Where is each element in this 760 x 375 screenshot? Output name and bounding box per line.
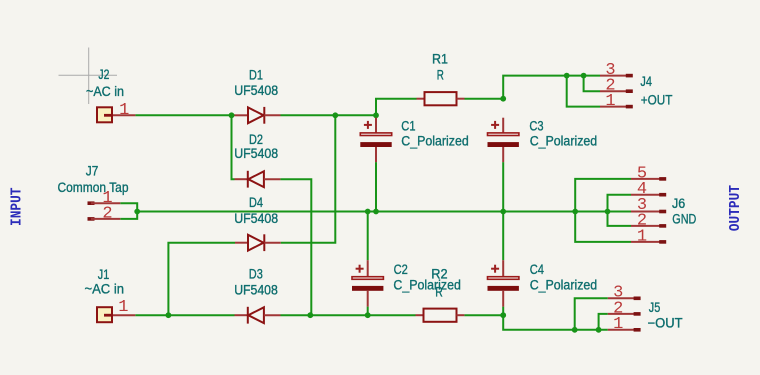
svg-text:D1: D1 [249,68,263,83]
svg-text:INPUT: INPUT [9,188,26,227]
capacitor C1 [360,118,469,162]
wire D4 left down [168,243,235,316]
connector J5 [608,284,683,335]
svg-text:UF5408: UF5408 [234,83,278,98]
junction J7 exit [134,209,140,215]
wire drop to D2 [232,115,235,179]
wire C2 top [367,212,369,261]
svg-text:2: 2 [102,205,112,224]
svg-text:UF5408: UF5408 [234,211,278,226]
svg-text:1: 1 [637,227,647,246]
wire D2 right down [280,179,311,315]
resistor R1 [417,51,465,105]
junction top at C1 [373,112,379,118]
svg-text:J2: J2 [98,67,109,82]
wire D4 right up [281,115,336,242]
svg-text:1: 1 [613,315,623,334]
svg-text:+OUT: +OUT [641,92,673,107]
connector J2 [86,67,135,122]
junction bottom at C2 [365,312,371,318]
junction bottom at C4 [500,312,506,318]
svg-text:UF5408: UF5408 [234,146,278,161]
svg-text:R1: R1 [432,51,448,66]
junction rail at C1 [373,209,379,215]
svg-text:C4: C4 [530,262,545,277]
junction top at D2 drop [229,112,235,118]
connector J7 [58,163,129,223]
svg-text:C3: C3 [529,118,543,133]
connector J6 [631,164,697,246]
svg-text:C2: C2 [394,262,408,277]
capacitor C4 [488,260,598,306]
svg-text:R: R [437,68,444,83]
svg-text:−OUT: −OUT [648,316,683,331]
svg-text:D4: D4 [249,195,263,210]
junction rail J6 outer [572,209,578,215]
svg-text:C_Polarized: C_Polarized [393,277,461,292]
junction top at D4 riser [332,112,338,118]
wire J7 bracket [120,203,137,219]
wire J2 to D1 [135,114,234,116]
svg-text:C_Polarized: C_Polarized [530,277,598,292]
svg-text:~AC in: ~AC in [85,282,125,297]
junction bottom at D2 drop [307,312,313,318]
wire C2 bottom [367,307,369,316]
wire J6 inner branch [608,195,632,226]
wire bus to J5 pin1 [503,315,608,330]
wire to J4 pin1 [567,76,600,107]
wire top net [135,76,600,316]
connector J1 [85,267,136,322]
svg-text:D3: D3 [249,267,263,282]
wire to J5 pin3 [575,298,608,330]
connector J4 [600,61,672,111]
svg-text:J6: J6 [672,196,685,211]
svg-text:1: 1 [605,92,615,111]
svg-text:GND: GND [672,211,696,226]
svg-text:D2: D2 [249,132,263,147]
wire C3 bottom [502,162,504,211]
junction J4 pin2 tap [581,73,587,79]
wire J6 outer branch [575,179,631,242]
wire to J5 pin2 [599,314,608,330]
wire J1 to D3 [135,314,234,316]
wire R1 to C3 junction [465,98,504,100]
svg-text:~AC in: ~AC in [86,84,124,99]
wire D3 to R2 [281,314,416,316]
junction bottom at D4 drop [166,312,172,318]
svg-text:UF5408: UF5408 [234,283,278,298]
wire bottom net [135,298,608,330]
svg-text:J1: J1 [98,267,110,282]
wire riser to R1 [376,99,417,116]
capacitor C3 [488,118,598,162]
wire R2 to C4 junction [464,314,503,316]
wire C1 bottom [375,162,377,211]
sheet origin crosshair [59,48,118,105]
diode D4 [234,195,281,251]
capacitor C2 [352,260,461,306]
junction rail at C3-C4 [500,209,506,215]
svg-text:1: 1 [118,298,128,317]
svg-text:Common Tap: Common Tap [58,180,129,195]
wire C4 bottom [502,307,504,316]
junction rail at C2 [365,209,371,215]
svg-text:C1: C1 [401,118,415,133]
wire to J4 pin2 [584,76,600,92]
svg-text:C_Polarized: C_Polarized [401,133,469,148]
junction bus J5 pin3 tap [572,327,578,333]
diode D1 [234,68,280,124]
wire to J4 pin3 [503,76,600,99]
wire D1 to C1 junction [281,114,377,116]
wire common rail [137,211,631,213]
diode D3 [234,267,280,324]
svg-text:J4: J4 [640,74,652,89]
diode D2 [234,132,280,188]
resistor R2 [416,267,465,322]
wire middle net [120,162,631,260]
svg-text:C_Polarized: C_Polarized [530,133,598,148]
junction rail J6 inner [605,209,611,215]
svg-text:J7: J7 [86,163,99,178]
svg-text:1: 1 [119,101,129,120]
wire C4 top [502,212,504,261]
svg-text:J5: J5 [649,300,661,315]
junction J4 pin1 tap [564,73,570,79]
svg-text:OUTPUT: OUTPUT [727,185,744,231]
junction bus J5 pin2 tap [596,327,602,333]
junction R1 right [500,96,506,102]
